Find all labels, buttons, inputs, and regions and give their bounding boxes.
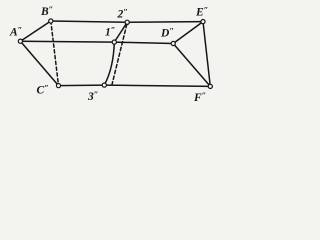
wire edge 1''3'' — [104, 42, 114, 85]
wire edge A''C'' — [20, 41, 58, 85]
wire edge 2''1'' — [114, 22, 127, 42]
wire edge 1''D'' — [114, 42, 173, 43]
wire edge E''F'' — [203, 22, 210, 87]
node A'' — [18, 39, 22, 43]
wire hidden edge 2''3'' (dashed) — [112, 24, 127, 84]
wire edge D''F'' — [173, 44, 210, 87]
node 1'' — [112, 40, 116, 44]
wire edge A''1'' — [20, 40, 114, 43]
node 2'' — [125, 20, 129, 24]
wire edge C''3'' — [59, 84, 105, 87]
wire edge 3''F'' — [104, 85, 210, 86]
node B'' — [49, 19, 53, 23]
wire edge B''2'' — [51, 21, 127, 22]
node 3'' — [102, 83, 106, 87]
wire edge D''E'' — [173, 22, 203, 44]
node F'' — [208, 84, 212, 88]
node D'' — [171, 41, 175, 45]
wire hidden edge B''C'' (dashed) — [51, 21, 59, 86]
node E'' — [201, 20, 205, 24]
wire edge 2''E'' — [127, 21, 203, 24]
node C'' — [56, 84, 60, 88]
wire edge A''B'' — [20, 21, 50, 41]
